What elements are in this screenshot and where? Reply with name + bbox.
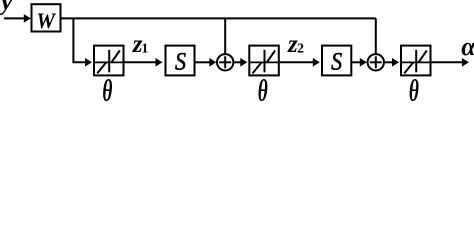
- wire branch down into adder A2: [375, 18, 377, 53]
- op U2 soft-threshold unit: [249, 46, 278, 76]
- node y (input signal label): [0, 0, 13, 16]
- op A1 summing junction: [217, 54, 233, 70]
- node z2 label: [287, 31, 304, 58]
- wire input arrow into W: [4, 14, 31, 23]
- svg-text:S: S: [331, 49, 342, 76]
- wire S1 to adder A1: [195, 58, 217, 67]
- wire branch down into thresholder U1: [73, 18, 92, 66]
- op W (weight matrix block): [32, 4, 61, 33]
- svg-text:θ: θ: [409, 73, 419, 108]
- wire output arrow: [431, 58, 469, 67]
- svg-text:θ: θ: [258, 73, 268, 108]
- value label θ3: [409, 73, 419, 108]
- node z1 label: [132, 31, 149, 58]
- op S1 gain block: [166, 46, 195, 76]
- wire top rail from W to second adder: [61, 17, 376, 19]
- svg-text:y: y: [0, 0, 13, 16]
- wire A1 to thresholder U2: [234, 58, 247, 67]
- svg-text:1: 1: [141, 42, 148, 57]
- op S2 gain block: [322, 46, 351, 76]
- svg-text:2: 2: [297, 42, 304, 57]
- op U3 soft-threshold unit: [401, 46, 431, 76]
- op A2 summing junction: [368, 54, 384, 70]
- wire S2 to adder A2: [351, 58, 367, 67]
- svg-text:θ: θ: [102, 73, 112, 108]
- wire A2 to thresholder U3: [385, 58, 399, 67]
- op U1 soft-threshold unit: [94, 46, 124, 76]
- svg-text:α: α: [461, 32, 474, 61]
- svg-text:W: W: [36, 8, 56, 33]
- wire branch down into adder A1: [224, 18, 226, 53]
- value label θ1: [102, 73, 112, 108]
- svg-text:S: S: [175, 49, 186, 76]
- value label θ2: [258, 73, 268, 108]
- wire U2 to S2: [279, 58, 320, 67]
- node α (output label): [461, 32, 474, 61]
- wire U1 to S1: [124, 58, 163, 67]
